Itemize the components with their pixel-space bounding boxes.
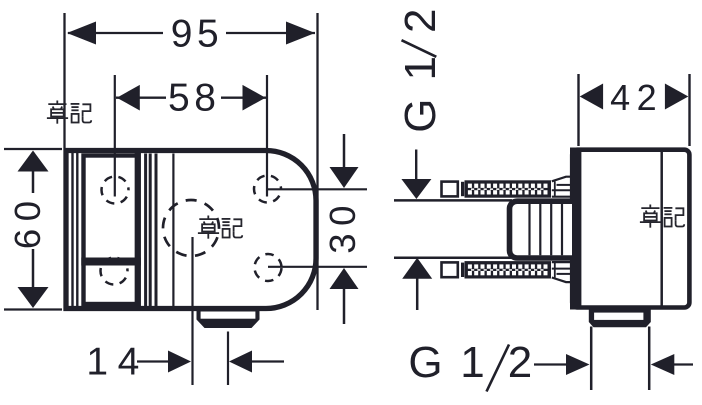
svg-text:2: 2 xyxy=(396,8,445,32)
dimension 42 arrows xyxy=(580,84,689,110)
svg-text:2: 2 xyxy=(508,338,532,387)
dimension 14 line and arrows xyxy=(137,351,284,373)
watermark 3 xyxy=(640,205,684,228)
side view body xyxy=(570,148,689,310)
top stud thread xyxy=(465,180,552,197)
dimension 58 extension line left xyxy=(114,75,116,197)
hole bottom-left (dashed) xyxy=(101,258,128,285)
top stud connector xyxy=(461,182,464,196)
watermark 1 xyxy=(47,101,91,124)
dimension 58 extension line right xyxy=(266,75,268,197)
G 1/2 bottom label xyxy=(408,338,532,392)
top stud mounting square xyxy=(442,182,458,197)
front view inner vertical line b xyxy=(76,153,78,306)
stud extension line bottom xyxy=(394,257,512,260)
svg-text:G: G xyxy=(408,338,442,387)
svg-text:42: 42 xyxy=(610,77,663,118)
G 1/2 bottom-stud arrow xyxy=(402,258,432,310)
dimension 95 line and arrows xyxy=(67,22,315,45)
front view body outline xyxy=(66,151,316,309)
dimension 42 extension line left xyxy=(577,74,579,146)
hole bottom-right (dashed) xyxy=(255,254,282,281)
svg-text:G: G xyxy=(396,98,445,132)
front view vertical line c xyxy=(144,154,147,307)
svg-text:60: 60 xyxy=(7,193,48,249)
dimension 95 extension line right xyxy=(316,13,318,310)
svg-text:1: 1 xyxy=(460,338,484,387)
front view vertical line d xyxy=(149,154,152,307)
front view holder inner box xyxy=(84,156,138,305)
G 1/2 bottom extension line right xyxy=(648,327,651,391)
bottom stud connector xyxy=(461,263,464,277)
front view holder divider bar xyxy=(81,258,141,266)
svg-text:30: 30 xyxy=(322,198,363,254)
dimension 60 line and arrows xyxy=(18,151,49,309)
hole top-left (dashed) xyxy=(102,177,129,204)
dimension 14 extension line right (outlet centerline) xyxy=(227,332,229,386)
front view inner vertical line a xyxy=(71,153,73,306)
bottom stud mounting square xyxy=(442,262,458,277)
front view vertical line f xyxy=(172,154,174,307)
svg-text:1: 1 xyxy=(396,56,445,80)
hole top-right (dashed) xyxy=(254,176,281,203)
central pivot hole (dashed) xyxy=(163,200,219,256)
stud extension line top xyxy=(394,199,512,202)
dimension 42 extension line right xyxy=(688,74,690,146)
dimension 30 extension line top xyxy=(268,188,367,190)
dimension 60 extension line bottom xyxy=(4,308,62,310)
dimension 14 extension line left (hole centerline) xyxy=(191,237,193,385)
front view inner box right thick edge xyxy=(135,152,141,307)
svg-text:95: 95 xyxy=(171,13,223,56)
dimension 58 line and arrows xyxy=(116,85,266,111)
bottom stud thread xyxy=(465,261,552,278)
svg-text:58: 58 xyxy=(168,77,220,120)
dimension 30 arrows xyxy=(330,134,359,324)
front view bottom outlet tab xyxy=(197,309,260,329)
dimension 95 extension line left xyxy=(63,13,65,148)
dimension 30 extension line bottom xyxy=(268,266,367,268)
top stud flange xyxy=(552,177,573,197)
bottom stud flange xyxy=(552,262,573,282)
front view vertical line e xyxy=(155,154,158,307)
G 1/2 bottom extension line left xyxy=(590,327,593,391)
G 1/2 top label (rotated) xyxy=(396,8,445,132)
dimension 60 extension line top xyxy=(4,148,62,150)
svg-text:14: 14 xyxy=(86,341,148,384)
watermark 2 xyxy=(198,216,242,239)
central thread block xyxy=(510,201,573,258)
G 1/2 bottom dimension arrows xyxy=(534,354,693,375)
side view bottom outlet tab xyxy=(589,308,651,327)
G 1/2 top leader line and arrow xyxy=(401,150,431,200)
